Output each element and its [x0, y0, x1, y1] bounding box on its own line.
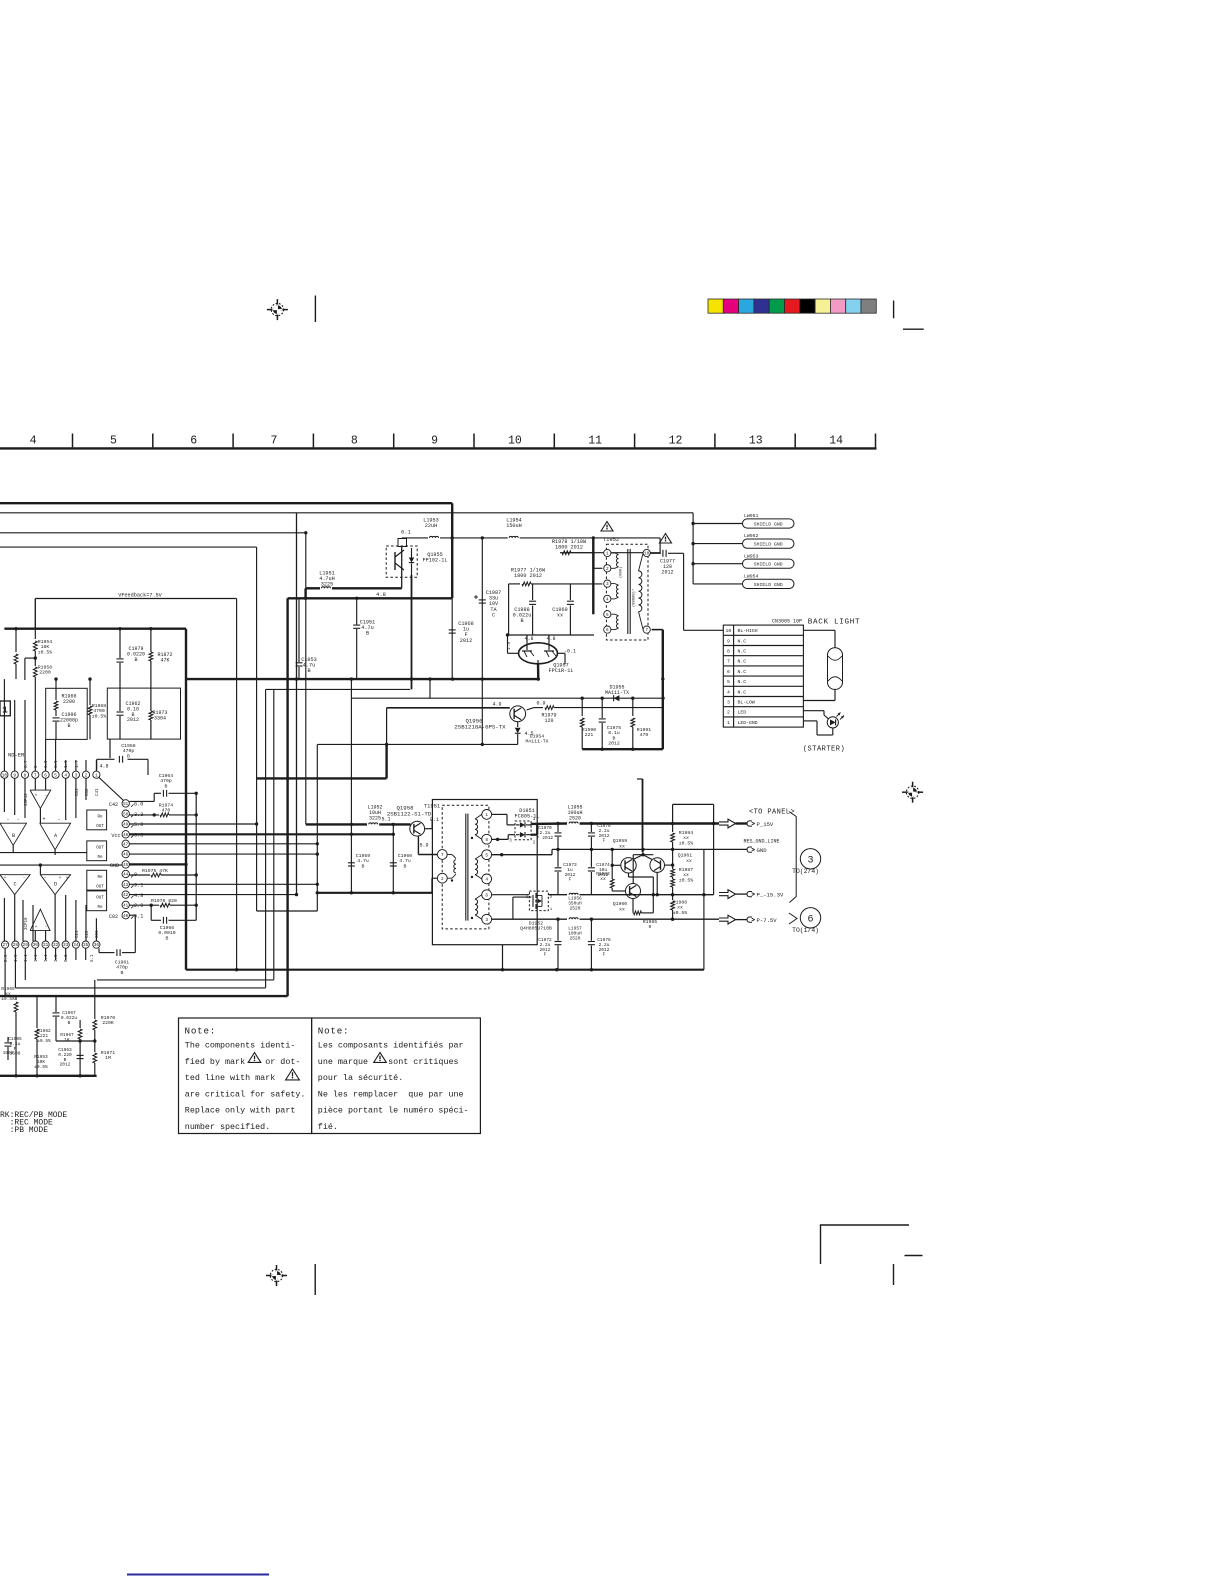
IC pin 35: [82, 941, 89, 948]
mosfet D1952: [492, 891, 553, 932]
svg-text:3: 3: [75, 773, 78, 778]
wire: [296, 513, 298, 895]
svg-text:une marque sont critiques: une marque sont critiques: [318, 1057, 459, 1067]
svg-text:C01: C01: [96, 930, 100, 938]
junction: [481, 743, 484, 746]
svg-text:D1952: D1952: [529, 921, 544, 927]
junction: [500, 853, 503, 856]
svg-text:4.8: 4.8: [134, 893, 143, 899]
shield bus: [692, 513, 694, 584]
resistor R1976: [129, 898, 196, 907]
arrow P_-15.3V: [719, 890, 784, 899]
svg-text:SHIELD GND: SHIELD GND: [754, 542, 783, 548]
wire: [594, 567, 602, 569]
svg-text:±0.5%: ±0.5%: [679, 840, 694, 846]
svg-text:R1971: R1971: [101, 1050, 116, 1056]
svg-text:P_15V: P_15V: [757, 821, 774, 828]
svg-text:4.7u: 4.7u: [357, 858, 369, 864]
svg-text:OUT: OUT: [96, 847, 104, 851]
svg-text:6: 6: [727, 669, 730, 675]
svg-text:B: B: [121, 970, 124, 976]
svg-text:6.1: 6.1: [401, 529, 412, 536]
IC pin 30: [32, 941, 39, 948]
svg-text:2SB1218A-6PS-TX: 2SB1218A-6PS-TX: [454, 723, 506, 730]
IC pin 7: [32, 771, 39, 778]
svg-text:F: F: [544, 952, 547, 958]
svg-text:-: -: [23, 876, 26, 881]
svg-text:Vcc: Vcc: [111, 833, 120, 839]
IC pin 10: [1, 771, 8, 778]
junction: [506, 633, 509, 636]
svg-text:B: B: [366, 631, 369, 637]
transistor Q1960: [613, 855, 641, 913]
svg-text:B: B: [67, 723, 70, 729]
svg-text:1: 1: [2, 705, 8, 716]
svg-text:xx: xx: [600, 877, 606, 882]
svg-text:2520: 2520: [569, 815, 581, 821]
wire: [593, 553, 595, 569]
svg-text:4: 4: [485, 878, 488, 883]
T1952 pin 10: [643, 549, 650, 556]
junction: [350, 891, 353, 894]
svg-text:1800 2012: 1800 2012: [555, 545, 583, 551]
junction: [481, 536, 484, 539]
svg-text:6: 6: [606, 628, 609, 633]
svg-text:2: 2: [441, 877, 444, 882]
svg-text:P_-15.3V: P_-15.3V: [757, 892, 784, 899]
T1951 pin 2: [437, 873, 447, 883]
wire bus G thick: [186, 678, 538, 680]
svg-text:VFeedback=7.5V: VFeedback=7.5V: [118, 593, 162, 599]
svg-text:220K: 220K: [102, 1020, 114, 1026]
svg-text:2012: 2012: [661, 569, 673, 575]
svg-text:N.C: N.C: [738, 649, 747, 655]
svg-text:2: 2: [85, 773, 88, 778]
wires pins top: [4, 679, 96, 771]
svg-text:B: B: [166, 935, 169, 941]
svg-text:FPC1R-1L: FPC1R-1L: [549, 668, 574, 674]
svg-text:43: 43: [123, 884, 129, 888]
svg-text:48: 48: [123, 834, 129, 838]
svg-text:1.6: 1.6: [65, 760, 69, 768]
svg-text:F: F: [603, 838, 606, 844]
svg-text:B: B: [127, 753, 130, 759]
resistor R1977: [509, 568, 603, 586]
svg-text:10: 10: [644, 552, 650, 557]
ruler line: [0, 447, 877, 449]
IC pin 34: [72, 941, 79, 948]
svg-text:2012: 2012: [460, 638, 472, 644]
svg-text:0.9: 0.9: [536, 701, 545, 707]
resistor R1973: [149, 688, 168, 739]
svg-text:4700: 4700: [93, 708, 105, 714]
wires opamp area: [0, 778, 122, 941]
svg-text:F: F: [569, 877, 572, 883]
svg-text:18K: 18K: [41, 644, 50, 650]
svg-text:33: 33: [63, 943, 69, 948]
capacitor C1996: [53, 712, 79, 739]
svg-text:R1990: R1990: [582, 727, 597, 733]
svg-text:TO(1/4): TO(1/4): [792, 927, 819, 934]
svg-text:SHIELD GND: SHIELD GND: [754, 582, 783, 588]
transistor Q1958: [381, 805, 439, 849]
svg-text:9.1: 9.1: [134, 883, 143, 889]
svg-text:1800 2012: 1800 2012: [514, 573, 542, 579]
svg-text:-: -: [6, 817, 9, 823]
resistor R1970: [93, 980, 115, 1041]
backlight lamp: [803, 630, 842, 700]
svg-text:xx: xx: [557, 613, 563, 619]
wire: [703, 849, 705, 969]
svg-text:Note:: Note:: [185, 1026, 217, 1037]
wire: [195, 793, 197, 920]
labels Q1957 volt: [506, 636, 576, 655]
svg-text:6.9: 6.9: [45, 760, 49, 768]
junction dots bus G: [295, 677, 540, 680]
wire: [429, 679, 431, 698]
svg-text:C: C: [13, 882, 16, 888]
svg-text:4.8: 4.8: [524, 636, 533, 642]
svg-text:LED-GND: LED-GND: [738, 720, 758, 726]
wire: [55, 679, 57, 688]
svg-text:-: -: [45, 925, 48, 930]
capacitor C1973: [555, 849, 578, 894]
svg-text:2SB1122-S1-TD: 2SB1122-S1-TD: [387, 810, 432, 817]
capacitor C1960: [390, 823, 413, 893]
svg-text:Ne les remplacer que par une: Ne les remplacer que par une: [318, 1089, 464, 1099]
ground bus: [0, 1075, 97, 1077]
svg-text:Re: Re: [97, 816, 103, 820]
svg-text:±0.5%: ±0.5%: [37, 1038, 51, 1044]
registration mark: [266, 1265, 287, 1286]
svg-text:B: B: [165, 783, 168, 789]
svg-text:4.8: 4.8: [99, 764, 108, 770]
label 1 box: [0, 701, 10, 716]
svg-text:4: 4: [606, 598, 609, 603]
warning mark: [601, 522, 613, 532]
resistor R1983: [596, 849, 625, 891]
capacitor C1975: [599, 698, 622, 749]
svg-text:11: 11: [588, 435, 602, 448]
wire: [581, 698, 583, 707]
capacitor C1970: [537, 824, 562, 850]
svg-text:31: 31: [43, 943, 49, 948]
capacitor C1972: [538, 919, 561, 970]
svg-text:120: 120: [544, 718, 553, 724]
svg-text:B: B: [68, 1020, 71, 1026]
resistor R1962: [35, 996, 51, 1076]
svg-text:50: 50: [123, 813, 129, 817]
colour calibration bar: [708, 299, 876, 313]
IC pin 29: [22, 941, 29, 948]
svg-text:2012: 2012: [608, 741, 620, 747]
wire rows: [129, 822, 393, 896]
capacitor C1967: [53, 996, 78, 1041]
svg-text:470p: 470p: [116, 965, 128, 971]
wire thick: [385, 744, 387, 778]
svg-text:Re: Re: [97, 906, 103, 910]
T1951 pin 6: [482, 890, 492, 900]
wire bus D: [0, 546, 257, 548]
svg-text:7: 7: [727, 659, 730, 665]
resistor R1991: [631, 698, 651, 749]
svg-text:5.9: 5.9: [419, 843, 428, 849]
svg-text:D1954: D1954: [530, 734, 545, 740]
svg-text:-: -: [57, 817, 60, 823]
svg-text:C22: C22: [86, 930, 90, 938]
svg-text:GND: GND: [110, 863, 119, 869]
svg-text:<TO PANEL>: <TO PANEL>: [749, 809, 795, 817]
transistor Q1961: [643, 853, 692, 873]
svg-text:470p: 470p: [160, 778, 172, 784]
connector CN3005 table: [723, 625, 803, 727]
svg-text:MA111-TX: MA111-TX: [605, 690, 629, 696]
crop tick: [893, 301, 895, 319]
wire: [431, 878, 433, 893]
label REC/PB: [0, 1111, 67, 1135]
wire: [25, 657, 35, 659]
svg-text:Q1959: Q1959: [613, 838, 628, 844]
inductor L1954: [506, 518, 660, 538]
svg-text:ND-ER: ND-ER: [8, 753, 25, 759]
svg-text:C1961: C1961: [115, 960, 130, 966]
svg-text:9: 9: [13, 773, 16, 778]
wire loop R1984: [673, 804, 714, 823]
terminal GND: [704, 847, 767, 854]
resistor R1966: [54, 688, 76, 716]
wire: [153, 793, 155, 801]
svg-text:OUT: OUT: [96, 886, 104, 890]
svg-text:C: C: [492, 612, 495, 618]
ruler ticks: [73, 434, 876, 448]
shield terminal LW952: [693, 533, 794, 548]
IC pin 5: [52, 771, 59, 778]
wire: [316, 744, 318, 911]
svg-text:1: 1: [95, 773, 98, 778]
IC pin 8: [21, 771, 28, 778]
capacitor C1958: [97, 743, 148, 775]
svg-text:B: B: [134, 657, 137, 663]
block Re/OUT: [87, 810, 107, 830]
svg-text:-0.1: -0.1: [564, 649, 576, 655]
svg-text:±0.5%: ±0.5%: [679, 877, 694, 883]
wire C02: [129, 915, 135, 952]
svg-text:±0.5%: ±0.5%: [673, 910, 688, 916]
svg-text:-: -: [16, 817, 19, 823]
op-amp D: [40, 875, 70, 895]
capacitor C1979: [117, 627, 146, 688]
capacitor C1969: [552, 584, 574, 635]
inductor L1956: [568, 893, 713, 911]
resistor R1954: [33, 599, 52, 665]
capacitor C1963: [58, 1047, 83, 1068]
T1952 pin 2: [604, 565, 611, 572]
svg-text:10: 10: [508, 435, 522, 448]
svg-text:40: 40: [123, 915, 129, 919]
op-amp B: [0, 817, 27, 846]
svg-text:3225: 3225: [321, 582, 333, 588]
wire GND row: [492, 849, 704, 854]
bracket TO(2/4): [789, 812, 796, 903]
svg-text:3: 3: [807, 856, 813, 867]
wire thick: [317, 892, 432, 894]
ruler numbers 4-14: [30, 435, 843, 448]
op-amp 3CP10: [25, 909, 50, 941]
svg-text:F 2012: F 2012: [537, 835, 554, 841]
svg-text:7: 7: [34, 773, 37, 778]
block Re/OUT: [87, 841, 107, 861]
T1952 pin 6: [604, 626, 611, 633]
capacitor C1965: [5, 1036, 23, 1060]
ref circle 3: [792, 849, 821, 875]
svg-text:3CP10: 3CP10: [25, 917, 29, 930]
svg-text:R1954: R1954: [38, 639, 53, 645]
svg-text:8: 8: [24, 773, 27, 778]
svg-text:R1991: R1991: [637, 727, 652, 733]
svg-text:6: 6: [44, 773, 47, 778]
svg-text:27: 27: [2, 943, 8, 948]
svg-text:D: D: [54, 882, 57, 888]
svg-text:N.C: N.C: [738, 659, 747, 665]
resistor R1988: [671, 895, 688, 921]
svg-text:6.7: 6.7: [25, 760, 29, 768]
svg-text:2: 2: [606, 567, 609, 572]
inductor L1955: [567, 805, 719, 824]
wire: [257, 910, 318, 912]
svg-text:+: +: [35, 925, 38, 930]
svg-text:OUT: OUT: [96, 825, 104, 829]
svg-text:6.0: 6.0: [134, 802, 143, 808]
IC pin 3: [72, 771, 79, 778]
svg-text:are critical for safety.: are critical for safety.: [185, 1089, 306, 1099]
svg-text:ted line with mark: ted line with mark: [185, 1073, 275, 1083]
wires pins bottom: [5, 948, 86, 996]
svg-text:470: 470: [640, 732, 649, 738]
T1951 pin 4: [482, 874, 492, 884]
svg-text:2520: 2520: [570, 935, 581, 941]
svg-text:C1966: C1966: [160, 925, 175, 931]
svg-text:45: 45: [123, 864, 129, 868]
svg-text:46: 46: [123, 854, 129, 858]
ref circle 6: [792, 908, 821, 934]
resistor R1953: [3, 1050, 48, 1070]
wire: [508, 584, 510, 635]
footer rule: [127, 1574, 269, 1576]
svg-text:±0.5%: ±0.5%: [38, 649, 53, 655]
svg-text:LW953: LW953: [744, 553, 759, 559]
svg-text:14: 14: [829, 435, 843, 448]
capacitor C1959: [348, 853, 370, 869]
svg-text:0.1: 0.1: [430, 817, 439, 823]
svg-text:7: 7: [271, 435, 278, 448]
junction: [350, 823, 353, 826]
svg-text:(STARTER): (STARTER): [803, 746, 845, 754]
wire bus A: [0, 502, 452, 504]
svg-text:R1976 820: R1976 820: [151, 898, 177, 904]
capacitor C1951: [353, 598, 375, 679]
svg-text:1.7: 1.7: [76, 760, 80, 768]
wire P-15 med: [548, 894, 567, 896]
svg-text:221: 221: [585, 732, 594, 738]
capacitor C1966: [151, 905, 196, 941]
wire feedback: [35, 599, 236, 970]
junction: [195, 792, 198, 795]
svg-text:LED: LED: [738, 710, 747, 716]
svg-text:8: 8: [351, 435, 358, 448]
resistor R1979: [534, 706, 663, 724]
wire: [683, 553, 685, 630]
svg-text:R1968: R1968: [92, 703, 107, 709]
svg-text:5: 5: [606, 613, 609, 618]
svg-text:P-7.5V: P-7.5V: [757, 917, 778, 924]
svg-text:C1975: C1975: [607, 725, 622, 731]
labels pin volts bottom: [5, 954, 69, 962]
svg-text:F: F: [603, 952, 606, 958]
svg-text:1: 1: [606, 552, 609, 557]
svg-text:12: 12: [669, 435, 683, 448]
svg-text:1508: 1508: [3, 1050, 14, 1056]
resistor R1968: [88, 677, 106, 739]
svg-text:7: 7: [645, 628, 648, 633]
junction: [691, 522, 694, 525]
resistor R1978: [552, 538, 660, 555]
svg-text:5: 5: [727, 679, 730, 685]
svg-text:5.1: 5.1: [91, 954, 95, 962]
T1951 pin 7: [437, 850, 447, 860]
svg-text:32: 32: [53, 943, 59, 948]
wire: [317, 743, 517, 745]
crop tick: [905, 1255, 923, 1257]
warning mark: [286, 1069, 300, 1080]
svg-text:6: 6: [807, 915, 813, 926]
svg-text:±0.5%: ±0.5%: [1, 996, 15, 1002]
svg-text:150uH: 150uH: [506, 523, 522, 529]
resistor R1872: [149, 627, 173, 688]
svg-text:470: 470: [162, 808, 171, 814]
wire: [713, 824, 715, 895]
svg-text:LW951: LW951: [744, 513, 759, 519]
T1952 pin 5: [604, 611, 611, 618]
svg-text:2: 2: [727, 710, 730, 716]
svg-text:10: 10: [726, 628, 732, 634]
inductor L1951: [306, 571, 402, 599]
capacitor C1977: [650, 550, 683, 576]
T1952 windings left: [611, 553, 619, 630]
svg-text:36: 36: [94, 943, 100, 948]
junction: [501, 968, 504, 971]
wire thick: [186, 969, 704, 971]
inductor L1957: [568, 918, 719, 942]
wire thick: [592, 538, 594, 614]
svg-text:35P41: 35P41: [25, 793, 29, 806]
IC pin 33: [62, 941, 69, 948]
LED D1956: [803, 711, 844, 735]
wire: [109, 739, 111, 758]
svg-text:xx: xx: [619, 845, 625, 850]
svg-text:B: B: [613, 735, 616, 741]
svg-text:2012: 2012: [60, 1062, 71, 1068]
svg-text:35: 35: [83, 943, 89, 948]
T1952 pin 1: [604, 549, 611, 556]
transformer T1952: [606, 544, 648, 640]
wire: [402, 537, 428, 539]
wire thick: [582, 748, 663, 750]
T1951 pin 5: [482, 850, 492, 860]
T1951 pin 8: [482, 834, 492, 844]
resistor R1985: [633, 895, 657, 931]
arrow P_15V: [719, 819, 774, 828]
IC pin 28: [12, 941, 19, 948]
